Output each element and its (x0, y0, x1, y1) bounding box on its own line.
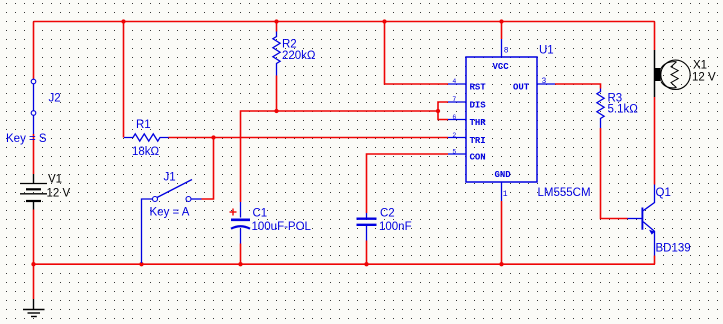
svg-text:TRI: TRI (470, 136, 486, 146)
svg-text:100uF-POL: 100uF-POL (252, 221, 312, 233)
svg-text:R2: R2 (282, 39, 297, 51)
svg-text:Key = S: Key = S (6, 133, 47, 145)
svg-text:V1: V1 (48, 174, 62, 186)
svg-text:X1: X1 (693, 60, 707, 72)
svg-text:BD139: BD139 (656, 243, 691, 255)
svg-text:220kΩ: 220kΩ (282, 50, 316, 62)
svg-text:RST: RST (470, 82, 487, 92)
svg-text:J1: J1 (164, 172, 176, 184)
svg-text:Key = A: Key = A (150, 207, 190, 219)
svg-text:GND: GND (495, 170, 512, 180)
svg-text:18kΩ: 18kΩ (132, 146, 160, 158)
svg-text:1: 1 (503, 190, 508, 199)
svg-text:2: 2 (452, 132, 456, 139)
svg-text:100nF: 100nF (379, 221, 412, 233)
svg-text:12 V: 12 V (47, 188, 71, 200)
svg-text:DIS: DIS (470, 100, 487, 110)
svg-text:CON: CON (470, 152, 486, 162)
svg-text:C2: C2 (380, 208, 395, 220)
svg-text:THR: THR (470, 118, 487, 128)
svg-text:3: 3 (542, 77, 547, 86)
svg-text:5.1kΩ: 5.1kΩ (608, 104, 639, 116)
svg-text:4: 4 (452, 78, 456, 85)
svg-text:J2: J2 (49, 93, 61, 105)
svg-text:R1: R1 (136, 119, 151, 131)
svg-text:8: 8 (504, 47, 509, 56)
svg-text:7: 7 (452, 96, 456, 103)
svg-text:LM555CM: LM555CM (538, 187, 591, 199)
svg-text:6: 6 (452, 114, 456, 121)
svg-text:VCC: VCC (493, 62, 510, 72)
svg-text:Q1: Q1 (656, 187, 671, 199)
svg-text:12 V: 12 V (692, 72, 716, 84)
svg-text:C1: C1 (253, 208, 268, 220)
svg-text:U1: U1 (539, 45, 554, 57)
svg-text:5: 5 (452, 148, 456, 155)
svg-text:OUT: OUT (513, 82, 530, 92)
